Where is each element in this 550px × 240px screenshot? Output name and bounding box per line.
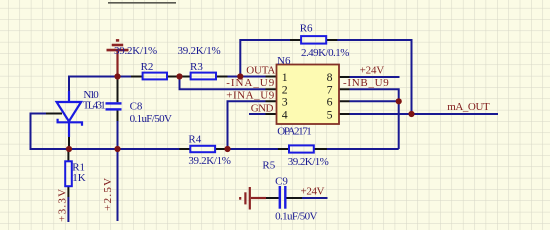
- label R6 value 2.49K/0.1%: [301, 47, 349, 59]
- wire C9 +24V segment: [302, 197, 328, 199]
- svg-text:GND: GND: [251, 103, 274, 115]
- label C8 value 0.1uF/50V: [130, 113, 172, 125]
- svg-text:0.1uF/50V: 0.1uF/50V: [275, 211, 317, 223]
- svg-text:R4: R4: [188, 134, 201, 146]
- pin number 2: [282, 82, 288, 96]
- svg-text:+2.5V: +2.5V: [102, 178, 114, 211]
- wire pin7 -INB drop: [350, 89, 399, 149]
- label R3 value 39.2K/1%: [178, 45, 221, 57]
- wire R6 feedback loop: [240, 39, 411, 114]
- net label +24V (pin 8): [360, 65, 385, 77]
- pin IC right stubs: [339, 77, 350, 114]
- pin C8 leads: [117, 77, 119, 121]
- label N6: [277, 55, 291, 67]
- svg-text:R5: R5: [262, 160, 275, 172]
- net label -INA_U9: [226, 77, 275, 89]
- wire OUTA row: [69, 76, 266, 78]
- svg-text:5: 5: [327, 107, 333, 121]
- svg-text:39.2K/1%: 39.2K/1%: [288, 156, 329, 168]
- label R4: [188, 134, 201, 146]
- junction C8/+2.5V node: [114, 146, 120, 152]
- capacitor C9: [280, 186, 286, 209]
- junction pin6/-INB node: [396, 98, 402, 104]
- pin number 3: [282, 95, 288, 109]
- label R3: [190, 61, 203, 73]
- label C8: [130, 101, 143, 113]
- wire pin5 mA_OUT: [350, 113, 499, 115]
- resistor R1: [65, 161, 72, 186]
- pin C9 leads: [265, 197, 302, 199]
- pin TL431 anode lead: [68, 136, 70, 149]
- svg-text:2.49K/0.1%: 2.49K/0.1%: [301, 47, 349, 59]
- pin R2 leads: [131, 76, 179, 78]
- wire R1 +3.3V tail: [67, 197, 69, 222]
- pin R4 leads: [179, 148, 226, 150]
- svg-text:C9: C9: [275, 176, 288, 188]
- label R1: [72, 162, 85, 174]
- junction at ground/R2 row: [114, 73, 120, 79]
- pin number 7: [327, 82, 333, 96]
- svg-text:0.1uF/50V: 0.1uF/50V: [130, 113, 172, 125]
- resistor R4: [190, 146, 215, 152]
- pin number 4: [282, 107, 288, 121]
- svg-text:OUTA: OUTA: [246, 65, 275, 77]
- svg-text:C8: C8: [130, 101, 143, 113]
- junction R4/R5/+INA node: [224, 146, 230, 152]
- wire C8 +2.5V column: [117, 120, 119, 221]
- net label +INA_U9: [226, 90, 275, 102]
- resistor R2: [143, 73, 167, 80]
- pin IC left stubs: [266, 77, 277, 115]
- svg-text:N6: N6: [277, 55, 291, 67]
- svg-text:39.2K/1%: 39.2K/1%: [114, 45, 157, 57]
- junction TL431/R1 node: [66, 146, 72, 152]
- resistor R5: [289, 145, 314, 152]
- label R2: [141, 61, 154, 73]
- pin R3 leads: [180, 76, 228, 78]
- svg-text:OPA2171: OPA2171: [277, 125, 312, 137]
- label R2 value 39.2K/1%: [114, 45, 157, 57]
- resistor R3: [191, 73, 216, 80]
- wire +INA riser: [228, 100, 266, 149]
- svg-text:mA_OUT: mA_OUT: [447, 101, 490, 113]
- net label mA_OUT: [447, 101, 490, 113]
- pin number 5: [327, 107, 333, 121]
- capacitor C8: [106, 103, 122, 109]
- svg-text:39.2K/1%: 39.2K/1%: [178, 45, 221, 57]
- svg-text:+3.3V: +3.3V: [56, 189, 68, 222]
- net label +24V (C9): [301, 186, 325, 198]
- label C9 value 0.1uF/50V: [275, 211, 317, 223]
- wire bottom row y=149: [31, 148, 399, 150]
- pin number 1: [282, 70, 288, 84]
- label TL431: [83, 100, 106, 112]
- ground (left of C9): [240, 187, 266, 210]
- op-amp U1 body N6 OPA2171: [277, 65, 340, 125]
- pin TL431 ref lead: [46, 113, 62, 115]
- wire TL431 cathode riser: [68, 76, 70, 103]
- svg-text:+INA_U9: +INA_U9: [226, 90, 275, 102]
- label R5: [262, 160, 275, 172]
- junction pin5/R6/mA_OUT node: [408, 111, 414, 117]
- label R4 value 39.2K/1%: [188, 155, 231, 167]
- net label +2.5V (rotated): [102, 178, 114, 211]
- pin number 6: [327, 95, 333, 109]
- svg-text:-INB_U9: -INB_U9: [343, 77, 389, 89]
- junction OUTA/R6 node: [237, 73, 243, 79]
- wire pin6: [350, 100, 399, 102]
- pin R5 leads: [278, 148, 327, 150]
- svg-text:-INA_U9: -INA_U9: [226, 77, 275, 89]
- label OPA2171: [277, 125, 312, 137]
- svg-text:+24V: +24V: [360, 65, 385, 77]
- svg-text:+24V: +24V: [301, 186, 325, 198]
- ground (top, near R2): [107, 40, 129, 76]
- svg-text:TL431: TL431: [83, 100, 106, 112]
- pin R1 leads: [67, 149, 69, 197]
- wire GND stub pin4: [249, 113, 266, 115]
- wire -INA drop: [180, 77, 266, 90]
- label N10: [83, 89, 99, 101]
- net label OUTA: [246, 65, 275, 77]
- svg-text:4: 4: [282, 107, 288, 121]
- net label +3.3V (rotated): [56, 189, 68, 222]
- wire (clipped, top edge): [108, 2, 176, 4]
- label C9: [275, 176, 288, 188]
- pin number 8: [327, 70, 333, 84]
- transistor-like shunt ref TL431 N10: [57, 91, 82, 137]
- net label GND: [251, 103, 274, 115]
- junction R2/R3/-INA node: [176, 73, 182, 79]
- pin R6 leads: [290, 39, 337, 41]
- svg-text:R2: R2: [141, 61, 154, 73]
- wire left loop to TL431 ref: [31, 114, 49, 151]
- svg-text:1K: 1K: [72, 172, 86, 184]
- wire pin8 +24V: [350, 76, 400, 78]
- svg-text:R6: R6: [300, 23, 313, 35]
- label R1 value 1K: [72, 172, 86, 184]
- svg-text:39.2K/1%: 39.2K/1%: [188, 155, 231, 167]
- svg-text:R3: R3: [190, 61, 203, 73]
- label R5 value 39.2K/1%: [288, 156, 329, 168]
- net label -INB_U9: [343, 77, 389, 89]
- label R6: [300, 23, 313, 35]
- resistor R6: [301, 36, 326, 44]
